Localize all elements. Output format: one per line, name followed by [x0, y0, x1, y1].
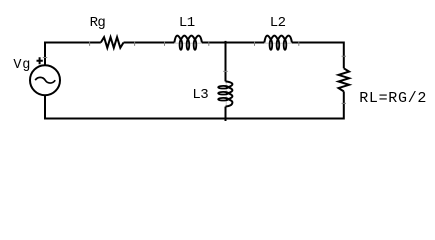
inductor L3 arches [226, 81, 233, 106]
wire: L1 to L2 [202, 42, 264, 44]
wire: L2 to top-right corner [292, 42, 344, 44]
pin tick marks vertical wires [43, 56, 346, 103]
plus sign [37, 57, 43, 64]
inductor L1 loops [180, 40, 197, 50]
label L3 [192, 88, 208, 102]
sine wave [35, 77, 55, 83]
inductor L2 arches [264, 36, 292, 43]
wire: faint through-line under L2 [264, 42, 292, 44]
label L1 [179, 16, 195, 30]
resistor Rg [101, 37, 124, 48]
wire: source top to Rg [45, 42, 101, 44]
label Rg [90, 16, 106, 30]
wire: faint through-line under L3 [225, 81, 227, 106]
wire: L3 to bottom [225, 107, 227, 121]
inductor L1 arches [174, 36, 202, 43]
wire: left vertical lower [44, 95, 46, 120]
wire: right vertical upper [343, 42, 345, 69]
wire: bottom [45, 118, 344, 120]
pin tick marks [90, 41, 299, 46]
wire: Rg to L1 [124, 42, 175, 44]
label RL=RG/2 [359, 91, 427, 106]
wire: node to L3 [225, 41, 227, 82]
resistor RL [339, 68, 350, 91]
label Vg [13, 59, 31, 73]
source Vg circle [30, 65, 60, 95]
inductor L2 loops [270, 40, 287, 50]
wire: right vertical lower [343, 91, 345, 119]
inductor L3 loops [218, 86, 228, 101]
wire: faint through-line under L1 [174, 42, 202, 44]
wire: left vertical upper [44, 42, 46, 66]
label L2 [270, 16, 286, 30]
